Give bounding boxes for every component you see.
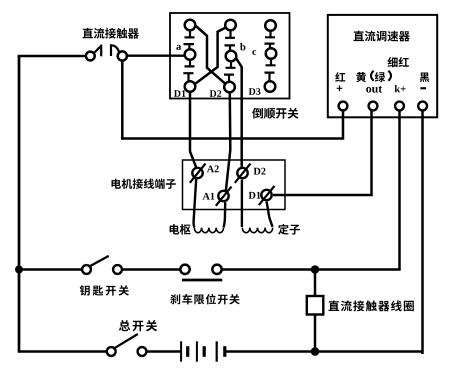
label 黄 (yellow) [356,72,366,82]
label c [252,50,256,55]
contactor moving blade [95,46,101,52]
terminal D1 circle (block) [261,190,271,200]
label A1 [203,193,215,200]
wire link top2 to D1 (cross) [195,28,226,84]
wire key switch to brake switch [122,268,181,271]
label 直流接触器 (DC contactor) [83,28,139,39]
wire link top1 to D2 (cross) [195,26,225,84]
contact marks col1 lower [183,60,194,81]
label a [176,45,181,50]
battery cell plate short 2 [203,346,206,357]
label 红 (red) [335,72,345,82]
pin label - [420,87,426,89]
terminal A2 slash [190,164,206,183]
terminal c circle [266,48,277,59]
switch terminal top-1 [185,20,196,31]
wire riser to plus terminal [342,110,345,140]
label D1 (block) [249,192,261,199]
label open paren [371,71,374,81]
terminal A1 circle [218,191,228,201]
contact marks col1 upper [184,31,195,49]
brake limit switch left circle [180,265,189,274]
switch terminal top-3 [265,20,276,31]
label 电枢 (armature) [170,224,191,235]
contact marks col2 lower [224,62,236,82]
armature winding coil [194,228,223,233]
wire k+ down to key-switch line [398,110,401,270]
label close paren [388,71,391,81]
terminal D2 slash [235,164,251,183]
contactor fixed tick 1 [100,45,102,57]
contactor contact right terminal circle [118,51,127,60]
terminal D2 circle (block) [237,168,247,178]
contact marks col3 upper [265,31,276,48]
wire horizontal to controller plus [121,137,343,140]
label 倒顺开关 (forward-reverse switch) [252,108,298,119]
label 黑 (black) [420,73,430,83]
terminal D2 circle [224,82,235,93]
contact marks col2 upper [225,31,236,51]
wire D2 to terminal A1 [226,93,230,191]
label D2 (switch) [210,90,222,97]
label 定子 (stator) [278,224,300,235]
wire battery to minus riser [226,350,423,353]
terminal a circle [185,49,196,60]
controller terminal k+ circle [395,102,404,111]
node junction coil top [311,265,320,274]
label 绿 (green) [375,72,386,82]
battery cell plate short 3 [223,346,226,357]
label D2 (block) [254,168,266,175]
wire bus to main switch [19,350,107,353]
label A2 [207,165,219,172]
main switch blade [115,334,138,348]
brake limit switch actuator bar [182,279,222,282]
wire terminal D1 to controller out [273,110,372,196]
terminal A2 circle [192,168,202,178]
controller terminal - circle [418,102,427,111]
node junction left bus [15,266,23,274]
switch terminal top-2 [225,20,236,31]
battery cell plate long 3 [216,341,218,361]
label 直流接触器线圈 (contactor coil) [329,300,414,311]
key switch blade [91,256,109,266]
label 钥匙开关 (key switch) [80,285,129,295]
wire A2 to armature winding [194,179,197,228]
label D1 (switch) [174,90,186,97]
battery cell plate short 1 [186,346,189,357]
wire left vertical bus [18,56,21,353]
wire junction to coil [314,270,317,297]
controller terminal out circle [369,102,378,111]
wire A1 to armature winding [223,202,225,227]
wire contactor down branch [121,60,124,139]
wire top-left to contactor [18,55,86,57]
label b [240,43,245,50]
key switch left circle [82,265,91,274]
terminal b circle [226,51,237,62]
pin label out [366,86,382,93]
contactor contact left terminal circle [86,52,95,61]
contact marks col3 lower [265,59,276,81]
label 直流调速器 (DC speed controller) [354,31,410,42]
wire contactor to switch terminal a [127,55,185,57]
label D3 (switch) [249,88,261,95]
contactor fixed tick 2 with lead-in [111,44,119,56]
controller terminal + circle [339,102,348,111]
wire D2 terminal to stator winding [241,180,243,227]
label 电机接线端子 (motor terminal block) [112,179,176,189]
wire coil to battery line [314,315,317,352]
terminal A1 slash [216,187,232,206]
terminal D1 slash [259,186,275,205]
wire D1 to terminal A2 [190,92,196,167]
forward-reverse switch box outline [170,13,290,99]
DC speed controller box outline [328,15,437,117]
pin label + [337,86,343,92]
battery cell plate long 1 [180,341,182,361]
main switch right circle [138,347,147,356]
stator winding coil [242,228,272,233]
node junction coil bottom [311,347,320,356]
wire bus to key switch [19,268,82,271]
wire from b down to terminal D2 [236,58,242,167]
terminal D3 circle [265,81,276,92]
terminal D1 circle [185,81,196,92]
pin label k+ [395,85,406,92]
label 细红 (thin red) [388,57,409,67]
label 刹车限位开关 (brake limit switch) [170,294,240,305]
wire D1 terminal to stator winding [267,202,273,227]
wire brake switch to k+ drop [221,268,401,271]
main switch left circle [107,347,116,356]
motor terminal box outline [183,160,286,210]
wire - down to battery line [421,110,423,353]
DC contactor coil rectangle [307,296,324,315]
brake limit switch right circle [212,265,221,274]
key switch right circle [113,265,122,274]
wire main switch to battery [147,350,181,353]
battery cell plate long 2 [196,341,198,361]
label 总开关 (main switch) [119,320,157,331]
